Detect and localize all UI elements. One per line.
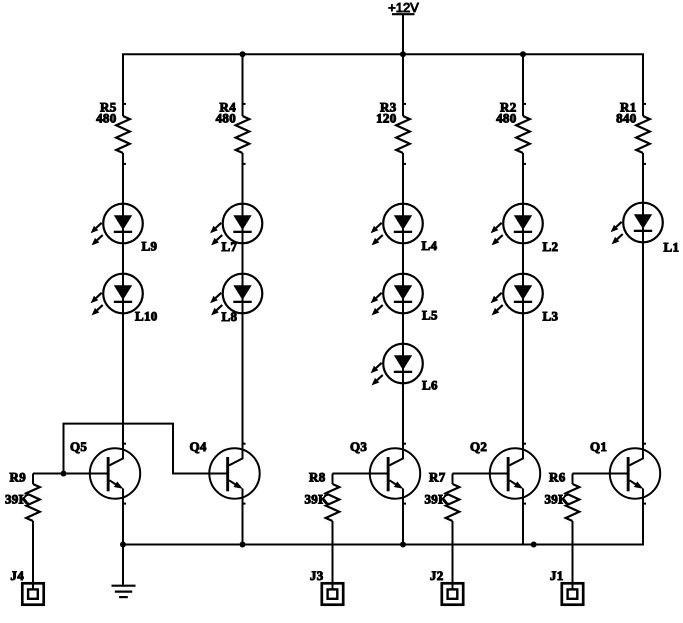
resistor R8 39K: [304, 470, 339, 522]
svg-text:39K: 39K: [544, 492, 569, 507]
resistor R5: [96, 100, 130, 165]
wire J3 lead: [332, 521, 334, 590]
svg-text:J3: J3: [310, 568, 324, 583]
LED L5: [371, 274, 438, 323]
wire J1 lead: [572, 521, 574, 590]
resistor R1: [616, 100, 650, 165]
wire emitter to ground rail: [242, 489, 244, 546]
wire Q1 base: [573, 473, 628, 475]
wire emitter to ground rail: [522, 489, 524, 546]
wire base link Q5 to Q4: [64, 424, 228, 474]
svg-text:L5: L5: [422, 308, 438, 323]
svg-text:L4: L4: [422, 238, 438, 253]
wire Q2 base: [453, 473, 508, 475]
connector J1: [550, 568, 583, 605]
connector J4: [10, 568, 43, 605]
wire emitter to ground rail: [642, 489, 644, 546]
transistor Q2: [470, 439, 540, 505]
wire emitter to ground rail: [402, 489, 404, 546]
wire: [122, 153, 124, 459]
svg-text:L9: L9: [142, 239, 158, 254]
connector J3: [310, 568, 343, 605]
node ground rail junction: [120, 542, 126, 548]
svg-text:+12V: +12V: [388, 0, 419, 15]
connector J2: [430, 568, 463, 605]
resistor R6 39K: [544, 470, 579, 522]
wire: [522, 54, 524, 116]
svg-text:L7: L7: [222, 239, 238, 254]
LED L8: [210, 274, 262, 324]
svg-text:J4: J4: [10, 568, 24, 583]
svg-text:L3: L3: [543, 309, 559, 324]
svg-text:480: 480: [496, 111, 516, 126]
LED L3: [491, 274, 559, 324]
LED L9: [91, 204, 158, 254]
node ground rail junction: [400, 542, 406, 548]
wire: [242, 54, 244, 116]
node top rail junction: [240, 51, 246, 57]
resistor R7 39K: [424, 470, 459, 522]
svg-text:R7: R7: [429, 470, 446, 485]
svg-text:480: 480: [96, 111, 116, 126]
LED L4: [371, 204, 438, 253]
transistor Q3: [350, 439, 420, 505]
svg-text:39K: 39K: [5, 492, 30, 507]
svg-text:R9: R9: [10, 470, 27, 485]
svg-text:Q4: Q4: [190, 439, 207, 454]
wire: [642, 153, 644, 459]
wire: [402, 153, 404, 459]
resistor R4: [216, 100, 250, 165]
node top rail junction: [400, 51, 406, 57]
wire emitter to ground rail: [122, 489, 124, 546]
svg-text:480: 480: [216, 111, 236, 126]
svg-text:Q3: Q3: [350, 439, 367, 454]
svg-text:39K: 39K: [424, 492, 449, 507]
svg-text:R6: R6: [549, 470, 566, 485]
wire +12V top rail: [123, 54, 643, 116]
LED L6: [371, 344, 438, 393]
node ground rail junction: [531, 542, 537, 548]
svg-text:L6: L6: [422, 378, 438, 393]
svg-text:J1: J1: [550, 568, 564, 583]
wire J4 lead: [32, 521, 34, 590]
LED L7: [210, 204, 262, 254]
node base junction: [61, 471, 67, 477]
svg-text:J2: J2: [430, 568, 444, 583]
transistor Q5: [70, 439, 140, 505]
LED L1: [611, 203, 680, 255]
wire Q5 base: [33, 473, 108, 475]
resistor R3: [376, 100, 410, 165]
svg-text:L10: L10: [135, 309, 158, 324]
svg-text:120: 120: [376, 111, 396, 126]
resistor R2: [496, 100, 530, 165]
wire Q3 base: [333, 473, 388, 475]
svg-text:Q5: Q5: [70, 439, 87, 454]
node top rail junction: [520, 51, 526, 57]
svg-text:39K: 39K: [304, 492, 329, 507]
power +12V: [388, 0, 419, 54]
wire ground rail: [123, 544, 644, 546]
svg-text:L8: L8: [222, 309, 238, 324]
transistor Q1: [590, 439, 660, 505]
resistor R9 39K: [5, 470, 40, 522]
svg-text:R8: R8: [309, 470, 326, 485]
transistor Q4: [190, 439, 260, 505]
svg-text:840: 840: [616, 111, 636, 126]
ground: [112, 545, 136, 598]
wire: [522, 153, 524, 459]
svg-text:L2: L2: [543, 239, 559, 254]
svg-text:Q1: Q1: [590, 439, 607, 454]
node ground rail junction: [240, 542, 246, 548]
wire J2 lead: [452, 521, 454, 590]
wire: [402, 54, 404, 116]
svg-text:Q2: Q2: [470, 439, 487, 454]
LED L2: [491, 204, 559, 254]
svg-text:L1: L1: [664, 240, 680, 255]
wire: [242, 153, 244, 459]
LED L10: [91, 274, 158, 324]
